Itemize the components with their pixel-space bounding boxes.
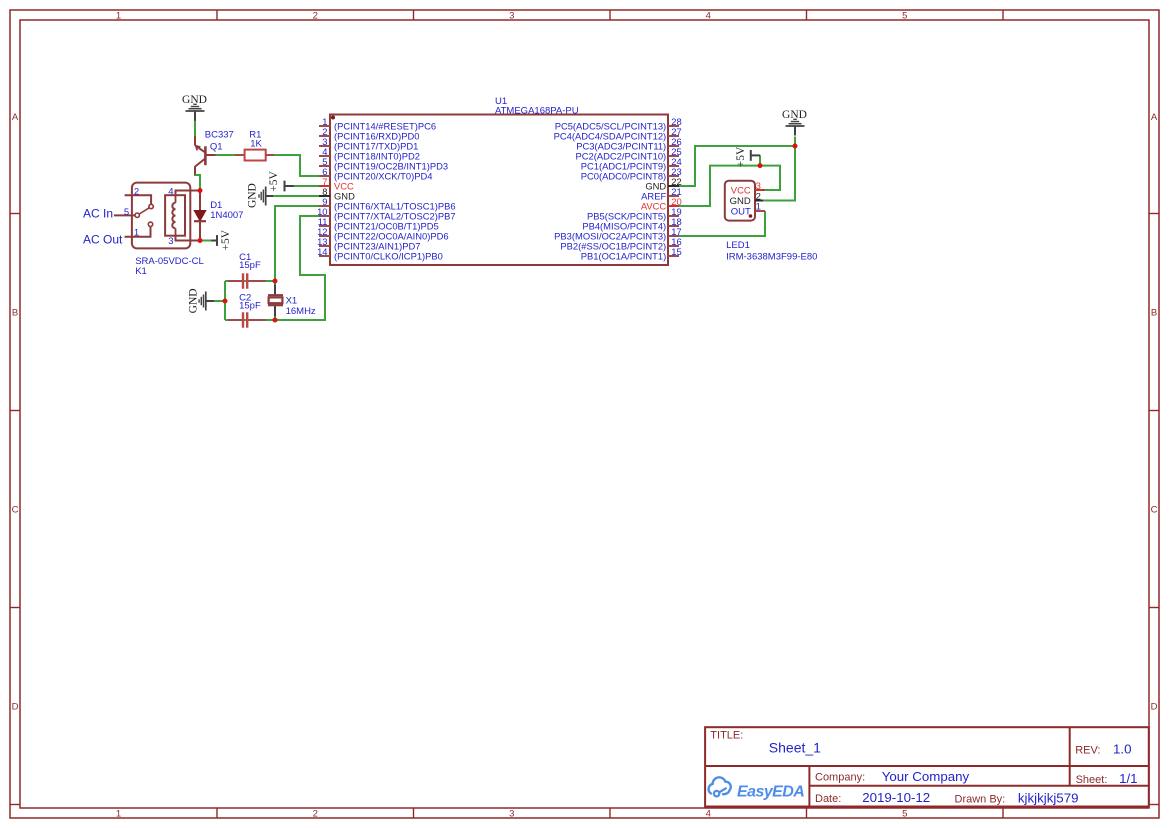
svg-text:REV:: REV: — [1075, 745, 1100, 757]
wire cap rail top — [225, 280, 275, 282]
svg-text:16MHz: 16MHz — [286, 306, 316, 317]
LED1 pin 1 OUT — [731, 202, 765, 218]
relay K1 pin 1 — [125, 226, 151, 238]
U1 pin 14 (PCINT0/CLKO/ICP1)PB0 — [317, 246, 443, 262]
wire U1 pin10 to XTAL bottom node — [275, 216, 325, 320]
ground GND1 above Q1 — [182, 94, 207, 121]
U1 pin 12 (PCINT22/OC0A/AIN0)PD6 — [317, 226, 449, 242]
relay K1 pin 5 — [114, 207, 135, 218]
svg-text:D: D — [1151, 701, 1158, 712]
U1 pin 25 PC2(ADC2/PCINT10) — [576, 146, 682, 162]
svg-text:2: 2 — [134, 186, 139, 197]
svg-text:GND: GND — [188, 288, 200, 313]
svg-text:4: 4 — [706, 808, 711, 819]
wire GND3 to rail — [214, 300, 226, 302]
svg-text:ATMEGA168PA-PU: ATMEGA168PA-PU — [495, 105, 579, 116]
svg-text:D: D — [12, 701, 19, 712]
relay K1 pin 4 — [168, 186, 199, 197]
power +5V at U1 pin7 — [268, 171, 294, 192]
U1 pin 26 PC3(ADC3/PCINT11) — [576, 136, 681, 152]
relay K1 pin 3 — [168, 236, 199, 248]
U1 pin 6 (PCINT20/XCK/T0)PD4 — [319, 166, 432, 182]
junction node J4 — [273, 279, 278, 284]
svg-text:GND: GND — [730, 196, 751, 207]
wire GND2 to U1 pin8 — [273, 195, 320, 197]
U1 pin 4 (PCINT18/INT0)PD2 — [319, 146, 420, 162]
svg-text:5: 5 — [124, 207, 129, 218]
U1 pin 22 GND — [645, 176, 681, 192]
wire +5V to U1 pin7 — [294, 185, 320, 187]
svg-text:LED1: LED1 — [726, 240, 750, 251]
svg-text:GND: GND — [247, 183, 259, 208]
svg-text:AC Out: AC Out — [83, 232, 123, 246]
svg-text:1: 1 — [756, 202, 761, 213]
svg-text:Sheet:: Sheet: — [1076, 774, 1108, 786]
relay K1 pin 2 — [125, 186, 152, 204]
svg-text:+5V: +5V — [735, 146, 747, 167]
U1 pin 5 (PCINT19/OC2B/INT1)PD3 — [319, 156, 448, 172]
wire GND4 stem — [794, 137, 796, 147]
U1 pin 19 PB5(SCK/PCINT5) — [587, 206, 682, 222]
resistor R1 1K — [235, 150, 275, 161]
svg-text:3: 3 — [509, 808, 514, 819]
ground GND3 at caps — [188, 288, 214, 313]
wire U1 pin20 AVCC to +5V node — [679, 166, 760, 206]
U1 pin 23 PC0(ADC0/PCINT8) — [581, 166, 682, 182]
svg-text:EasyEDA: EasyEDA — [737, 784, 804, 801]
LED1 pin 2 GND — [730, 191, 763, 207]
U1 pin 20 AVCC — [641, 196, 682, 212]
junction node J6 — [793, 144, 798, 149]
svg-text:GND: GND — [182, 94, 207, 106]
svg-text:1N4007: 1N4007 — [210, 210, 243, 221]
svg-text:3: 3 — [509, 10, 514, 21]
junction node J3 — [223, 299, 228, 304]
svg-text:1: 1 — [116, 10, 121, 21]
svg-text:4: 4 — [168, 186, 173, 197]
svg-text:5: 5 — [902, 10, 907, 21]
svg-text:3: 3 — [756, 181, 761, 192]
wire Q1 collector to relay node — [195, 174, 200, 191]
wire GND1 to Q1 emitter — [194, 121, 196, 137]
svg-text:AC In: AC In — [83, 206, 113, 220]
svg-text:X1: X1 — [286, 295, 298, 306]
wire R1 to U1 pin6 — [275, 155, 319, 176]
svg-text:2: 2 — [313, 10, 318, 21]
U1 pin 17 PB3(MOSI/OC2A/PCINT3) — [554, 226, 682, 242]
power +5V at LED1 — [735, 146, 760, 167]
svg-text:IRM-3638M3F99-E80: IRM-3638M3F99-E80 — [726, 251, 817, 262]
ground GND2 at U1 pin8 — [247, 183, 274, 208]
wire crystal bottom stub — [274, 316, 276, 320]
svg-text:15pF: 15pF — [239, 301, 261, 312]
U1 pin 8 GND — [319, 186, 355, 202]
EasyEDA logo cloud — [709, 777, 731, 796]
svg-text:15pF: 15pF — [239, 260, 261, 271]
U1 pin 27 PC4(ADC4/SDA/PCINT12) — [554, 126, 682, 142]
U1 pin 28 PC5(ADC5/SCL/PCINT13) — [555, 116, 682, 132]
svg-text:1.0: 1.0 — [1113, 742, 1132, 757]
svg-text:Company:: Company: — [815, 771, 865, 783]
wire Q1 base to R1 — [216, 154, 236, 156]
junction node J5 — [273, 318, 278, 323]
U1 pin 13 (PCINT23/AIN1)PD7 — [317, 236, 420, 252]
svg-text:B: B — [12, 307, 18, 318]
U1 pin 15 PB1(OC1A/PCINT1) — [581, 246, 682, 262]
svg-text:OUT: OUT — [731, 206, 751, 217]
svg-text:1: 1 — [116, 808, 121, 819]
svg-text:A: A — [1151, 112, 1158, 123]
U1 pin 1 (PCINT14/#RESET)PC6 — [319, 116, 436, 132]
svg-text:Q1: Q1 — [210, 142, 223, 153]
wire U1 pin17 to LED1 OUT pin — [679, 211, 765, 236]
svg-text:PB1(OC1A/PCINT1): PB1(OC1A/PCINT1) — [581, 251, 666, 262]
wire +5V symbol to node — [759, 155, 761, 165]
U1 pin 2 (PCINT16/RXD)PD0 — [319, 126, 419, 142]
svg-text:+5V: +5V — [220, 229, 232, 250]
svg-text:K1: K1 — [135, 266, 147, 277]
capacitor C1 15pF — [228, 273, 266, 288]
wire cap rail left vertical — [224, 281, 226, 320]
junction node J2 — [198, 238, 203, 243]
svg-text:C: C — [1151, 504, 1158, 515]
wire U1 pin22 to GND4 node — [679, 146, 795, 186]
wire crystal top stub — [274, 281, 276, 285]
svg-text:B: B — [1151, 307, 1157, 318]
svg-text:TITLE:: TITLE: — [710, 729, 743, 741]
svg-text:1K: 1K — [250, 138, 262, 149]
svg-text:+5V: +5V — [268, 171, 280, 192]
diode D1 1N4007 — [194, 191, 206, 241]
wire U1 pin9 to XTAL node — [275, 206, 319, 281]
wire GND4 node to LED1 GND pin — [763, 146, 795, 201]
svg-text:2019-10-12: 2019-10-12 — [862, 790, 930, 805]
junction node J1 — [198, 188, 203, 193]
svg-text:Drawn By:: Drawn By: — [955, 794, 1006, 806]
svg-text:C: C — [12, 504, 19, 515]
op-amp U1 body ATMEGA168PA-PU — [330, 115, 668, 266]
title block frame — [705, 727, 1149, 806]
capacitor C2 15pF — [228, 312, 266, 327]
svg-text:5: 5 — [902, 808, 907, 819]
U1 pin1 marker dot — [331, 116, 335, 120]
relay K1 switch contacts — [135, 204, 153, 226]
wire relay pin3 node to +5V — [200, 240, 212, 242]
wire +5V node to LED1 VCC pin — [760, 166, 780, 190]
relay K1 coil — [165, 195, 185, 236]
svg-text:GND: GND — [782, 109, 807, 121]
svg-text:Date:: Date: — [815, 793, 841, 805]
svg-text:Sheet_1: Sheet_1 — [769, 739, 821, 755]
svg-text:VCC: VCC — [731, 186, 751, 197]
svg-text:1: 1 — [134, 227, 139, 238]
svg-text:15: 15 — [671, 246, 681, 257]
svg-text:(PCINT0/CLKO/ICP1)PB0: (PCINT0/CLKO/ICP1)PB0 — [334, 251, 443, 262]
svg-text:kjkjkjkj579: kjkjkjkj579 — [1018, 791, 1079, 806]
svg-text:14: 14 — [317, 246, 327, 257]
LED1 pin1 marker dot — [749, 214, 753, 218]
svg-text:1/1: 1/1 — [1119, 771, 1138, 786]
U1 pin 18 PB4(MISO/PCINT4) — [582, 216, 681, 232]
U1 pin 10 (PCINT7/XTAL2/TOSC2)PB7 — [317, 206, 456, 222]
U1 pin 11 (PCINT21/OC0B/T1)PD5 — [318, 216, 439, 232]
junction node J7 — [758, 163, 763, 168]
relay K1 SRA-05VDC-CL body — [132, 183, 190, 249]
ground GND4 top right — [782, 109, 807, 136]
U1 pin 3 (PCINT17/TXD)PD1 — [319, 136, 418, 152]
svg-text:Your Company: Your Company — [882, 769, 970, 784]
U1 pin 16 PB2(#SS/OC1B/PCINT2) — [560, 236, 681, 252]
U1 pin 24 PC1(ADC1/PCINT9) — [581, 156, 682, 172]
svg-text:3: 3 — [168, 236, 173, 247]
transistor Q1 BC337 — [195, 136, 216, 174]
svg-text:2: 2 — [313, 808, 318, 819]
wire cap rail bottom — [225, 319, 275, 321]
U1 pin 9 (PCINT6/XTAL1/TOSC1)PB6 — [319, 196, 456, 212]
LED1 pin 3 VCC — [731, 181, 765, 197]
U1 pin 7 VCC — [319, 176, 354, 192]
svg-text:4: 4 — [706, 10, 711, 21]
U1 pin 21 AREF — [641, 186, 682, 202]
LED1 IRM-3638M3F99-E80 body — [725, 181, 755, 221]
svg-text:A: A — [12, 112, 19, 123]
svg-text:BC337: BC337 — [205, 130, 234, 141]
power +5V at relay D1 node — [211, 229, 232, 250]
crystal X1 16MHz — [268, 285, 283, 317]
